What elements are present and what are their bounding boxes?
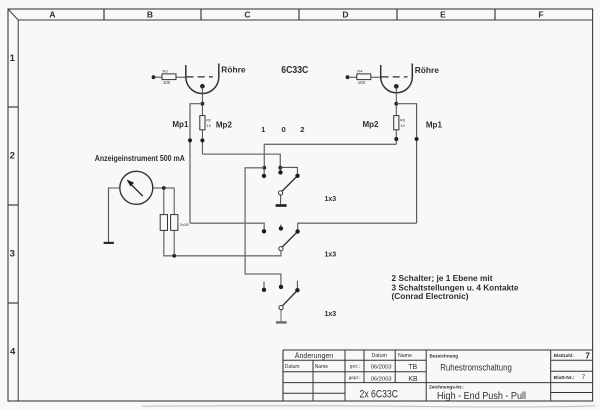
tube V2 grid dashed line (382, 76, 408, 78)
svg-text:D: D (342, 9, 348, 19)
switch S2 right contact dot (295, 229, 299, 233)
switch S1 right contact dot (295, 174, 299, 178)
frame corner diagonal (8, 9, 18, 20)
row tick 3|4 (8, 302, 18, 304)
svg-text:Änderungen: Änderungen (295, 352, 334, 360)
shunt resistor left body (160, 215, 167, 231)
svg-text:1: 1 (10, 53, 16, 64)
switch S1 lever (282, 177, 296, 191)
wire R6 bottom down (395, 130, 397, 145)
tube V1 cathode dot (200, 84, 205, 89)
svg-text:B: B (147, 9, 153, 19)
svg-text:3: 3 (10, 249, 15, 260)
Mp1 left test point dot (188, 138, 192, 142)
svg-text:C: C (244, 9, 250, 19)
switch S3 right contact dot (295, 288, 299, 292)
wire V1 cathode net to switch S1 middle contact (202, 154, 280, 168)
svg-text:6C33C: 6C33C (281, 64, 308, 76)
wire S1 pole down (280, 195, 282, 204)
wire S1 left contact stub (263, 168, 265, 176)
node V2 cathode branch (394, 102, 398, 106)
svg-text:A: A (49, 9, 55, 19)
svg-text:7: 7 (585, 350, 590, 360)
svg-text:Blatt-Nr.:: Blatt-Nr.: (554, 375, 575, 381)
ground bar (meter) (104, 242, 114, 244)
wire R4 to tube V2 grid (371, 76, 381, 78)
svg-text:1x3: 1x3 (325, 252, 337, 259)
wire V2 cathode net to switch S1 left contact (264, 144, 396, 168)
wire S3 pole down (280, 310, 282, 321)
svg-text:R3: R3 (163, 69, 169, 74)
switch S2 middle contact dot (279, 226, 283, 230)
svg-text:1x3: 1x3 (325, 196, 337, 203)
Mp2 right test point dot (394, 137, 398, 141)
tube V1 grid dashed line (187, 76, 214, 78)
wire Mp1-left net to S2 left contact (190, 223, 264, 231)
title block vertical end of Änderungen (344, 350, 346, 401)
svg-text:100: 100 (358, 80, 366, 85)
svg-text:Mp1: Mp1 (172, 120, 189, 129)
switch S1 pole circle (279, 191, 283, 195)
resistor R4 grid terminal dot (346, 75, 350, 79)
switch S1 middle contact dot (278, 170, 282, 174)
row tick 2|3 (8, 204, 18, 206)
switch S1 left contact dot (262, 174, 266, 178)
svg-text:Blattzahl:: Blattzahl: (554, 353, 574, 359)
frame inner left line (17, 20, 19, 401)
title block horizontal row gez bottom (283, 370, 593, 373)
svg-text:Name: Name (398, 353, 412, 359)
wire S1 bridge middle to right contact (280, 167, 297, 175)
svg-text:2: 2 (10, 151, 15, 162)
wire V2 cathode down to R6 (395, 86, 397, 115)
wire S2 middle contact stub (280, 225, 282, 229)
svg-text:R4: R4 (357, 69, 363, 74)
frame inner top line (18, 19, 592, 21)
Mp2 left test point dot (200, 138, 204, 142)
node meter output junction (162, 186, 166, 190)
switch S3 lever (283, 292, 297, 306)
svg-text:2 Schalter; je 1 Ebene mit: 2 Schalter; je 1 Ebene mit (392, 274, 493, 283)
title block vertical gez|Datum (363, 350, 365, 383)
wire V1 cathode down to R2 (201, 86, 203, 115)
resistor R3 grid terminal dot (152, 75, 156, 79)
wire S3 left contact stub (263, 282, 265, 290)
switch S3 pole terminal bar (276, 321, 287, 323)
wire grid terminal to R3 (154, 76, 163, 78)
title block vertical Datum|Name divider (312, 360, 314, 400)
svg-text:Anzeigeinstrument 500 mA: Anzeigeinstrument 500 mA (95, 154, 185, 163)
wire Mp1-right net to S2 right contact (298, 223, 417, 231)
resistor R4 body (357, 74, 371, 80)
wire Mp1 left branch (190, 104, 202, 224)
svg-text:Datum: Datum (285, 364, 300, 370)
node shunt R right junction (172, 254, 176, 258)
svg-text:1x3: 1x3 (325, 311, 337, 318)
wire meter left terminal to ground (109, 188, 120, 242)
title block vertical Bezeichnung|Blatt column (550, 350, 552, 401)
svg-text:Röhre: Röhre (221, 65, 246, 75)
svg-text:Röhre: Röhre (415, 65, 440, 75)
svg-text:Name: Name (315, 364, 329, 370)
svg-text:Datum: Datum (372, 353, 387, 359)
svg-text:E: E (440, 9, 446, 19)
svg-text:Ruhestromschaltung: Ruhestromschaltung (440, 362, 512, 373)
switch S2 left contact dot (262, 229, 266, 233)
title block top edge (283, 349, 593, 351)
wire S3 right contact stub (296, 281, 298, 290)
svg-text:2x 6C33C: 2x 6C33C (360, 388, 399, 400)
svg-text:Mp2: Mp2 (216, 120, 233, 129)
meter M1 needle (130, 184, 143, 197)
title block vertical Datum|Name (394, 350, 396, 383)
svg-text:06/2003: 06/2003 (371, 364, 392, 370)
title block outline left edge (282, 350, 284, 401)
node S1 middle feed junction (278, 166, 282, 170)
resistor R6 body (394, 116, 399, 130)
meter M1 needle arrowhead (127, 180, 134, 187)
svg-text:100: 100 (163, 80, 171, 85)
switch S1 pole terminal bar (276, 204, 287, 207)
row tick 1|2 (8, 106, 18, 108)
wire corner down to shunt R right (173, 188, 175, 215)
svg-text:Zeichnungs-Nr.:: Zeichnungs-Nr.: (429, 384, 464, 389)
svg-text:TB: TB (408, 364, 417, 371)
svg-text:gepr.:: gepr.: (349, 375, 361, 381)
svg-text:10: 10 (207, 124, 211, 128)
switch S3 middle contact dot (279, 285, 283, 289)
resistor R2 body (200, 116, 205, 130)
svg-text:R6: R6 (400, 119, 405, 123)
node S1 left feed junction (262, 166, 266, 170)
svg-text:F: F (538, 9, 543, 19)
svg-text:gez.:: gez.: (350, 364, 360, 369)
switch S2 lever (282, 233, 296, 247)
wire R3 to tube V1 grid (176, 76, 186, 78)
svg-text:R2: R2 (206, 119, 211, 123)
title block horizontal header row bottom (283, 359, 593, 361)
tube V2 cathode dot (394, 84, 399, 89)
svg-text:2x1R: 2x1R (180, 222, 189, 227)
column tick C|D (298, 9, 300, 20)
meter M1 body circle (120, 171, 153, 204)
column tick A|B (103, 9, 105, 20)
tube V1 envelope (left Röhre) (186, 64, 219, 94)
switch S3 left contact dot (262, 288, 266, 292)
wire junction down to shunt R left (163, 188, 165, 215)
shunt resistor right body (171, 215, 178, 231)
wire S2 pole to meter shunt (164, 230, 281, 255)
column tick B|C (200, 9, 202, 20)
Mp1 right test point dot (415, 137, 419, 141)
svg-text:0: 0 (281, 125, 285, 134)
resistor R3 body (162, 74, 176, 80)
tube V2 envelope (right Röhre) (381, 64, 413, 93)
svg-text:10: 10 (401, 124, 405, 128)
wire meter right terminal (153, 187, 174, 189)
wire R2 bottom down (201, 130, 203, 154)
scan artifact line bottom (142, 406, 595, 407)
column tick E|F (494, 9, 496, 20)
node V1 cathode branch (201, 102, 205, 106)
title block horizontal left small row line (283, 392, 593, 395)
wire S1 left junction to S3 feed (245, 168, 281, 287)
svg-text:KB: KB (408, 376, 418, 383)
title block vertical Name|Bezeichnung (425, 350, 427, 401)
svg-text:Bezeichnung: Bezeichnung (430, 353, 459, 358)
wire S1 middle contact stub (279, 168, 281, 173)
switch S2 pole circle (279, 247, 283, 251)
svg-text:2: 2 (300, 125, 304, 134)
svg-text:Mp1: Mp1 (426, 121, 443, 130)
wire Mp1 right branch (396, 104, 416, 224)
svg-text:(Conrad Electronic): (Conrad Electronic) (392, 292, 469, 301)
svg-text:06/2003: 06/2003 (371, 376, 392, 382)
wire grid terminal to R4 (348, 76, 357, 78)
svg-text:4: 4 (10, 346, 16, 357)
svg-text:Mp2: Mp2 (363, 120, 380, 129)
wire shunt R right bottom (173, 230, 175, 255)
title block horizontal row gepr bottom (283, 382, 593, 384)
column tick D|E (396, 9, 398, 20)
switch S3 pole circle (279, 306, 283, 310)
svg-text:High - End Push - Pull: High - End Push - Pull (437, 391, 526, 402)
